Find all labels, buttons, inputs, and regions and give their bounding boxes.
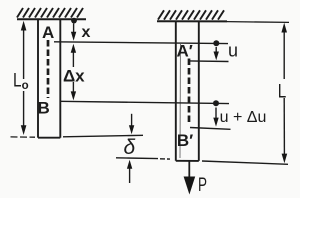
svg-text:o: o [22,80,29,92]
svg-text:δ: δ [123,136,135,159]
svg-text:P: P [198,175,207,196]
svg-text:L: L [278,81,287,102]
svg-text:B: B [38,99,50,118]
svg-text:L: L [13,71,22,92]
svg-text:x: x [82,24,91,41]
svg-text:B′: B′ [177,131,193,150]
svg-text:u: u [228,41,238,61]
svg-text:A: A [42,23,54,42]
svg-text:A′: A′ [177,41,193,60]
svg-text:u + Δu: u + Δu [220,109,267,126]
svg-text:Δx: Δx [63,67,85,86]
